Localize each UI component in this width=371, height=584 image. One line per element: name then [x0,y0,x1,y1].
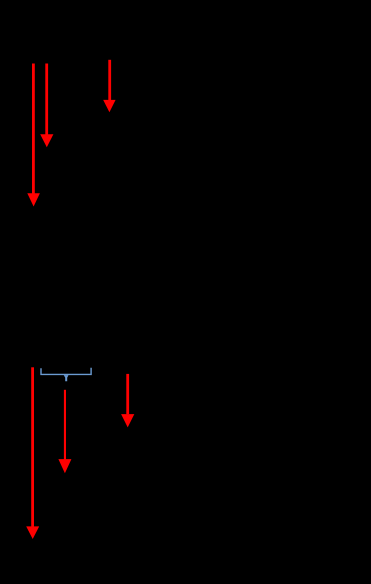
blue brace (square bracket with center tick, below-pointing) [41,368,91,375]
red arrow 1 (top-left, long) [27,64,40,207]
blue brace center tick [64,375,69,381]
red arrow 5 (bottom-middle, thin) [58,390,71,474]
red arrow 6 (bottom-right) [121,374,134,428]
red arrow 3 (top-middle, short) [103,60,115,113]
red arrow 2 (top-left, shorter, right of arrow 1) [40,64,53,148]
red arrow 4 (bottom-left, long to bottom) [26,367,39,539]
